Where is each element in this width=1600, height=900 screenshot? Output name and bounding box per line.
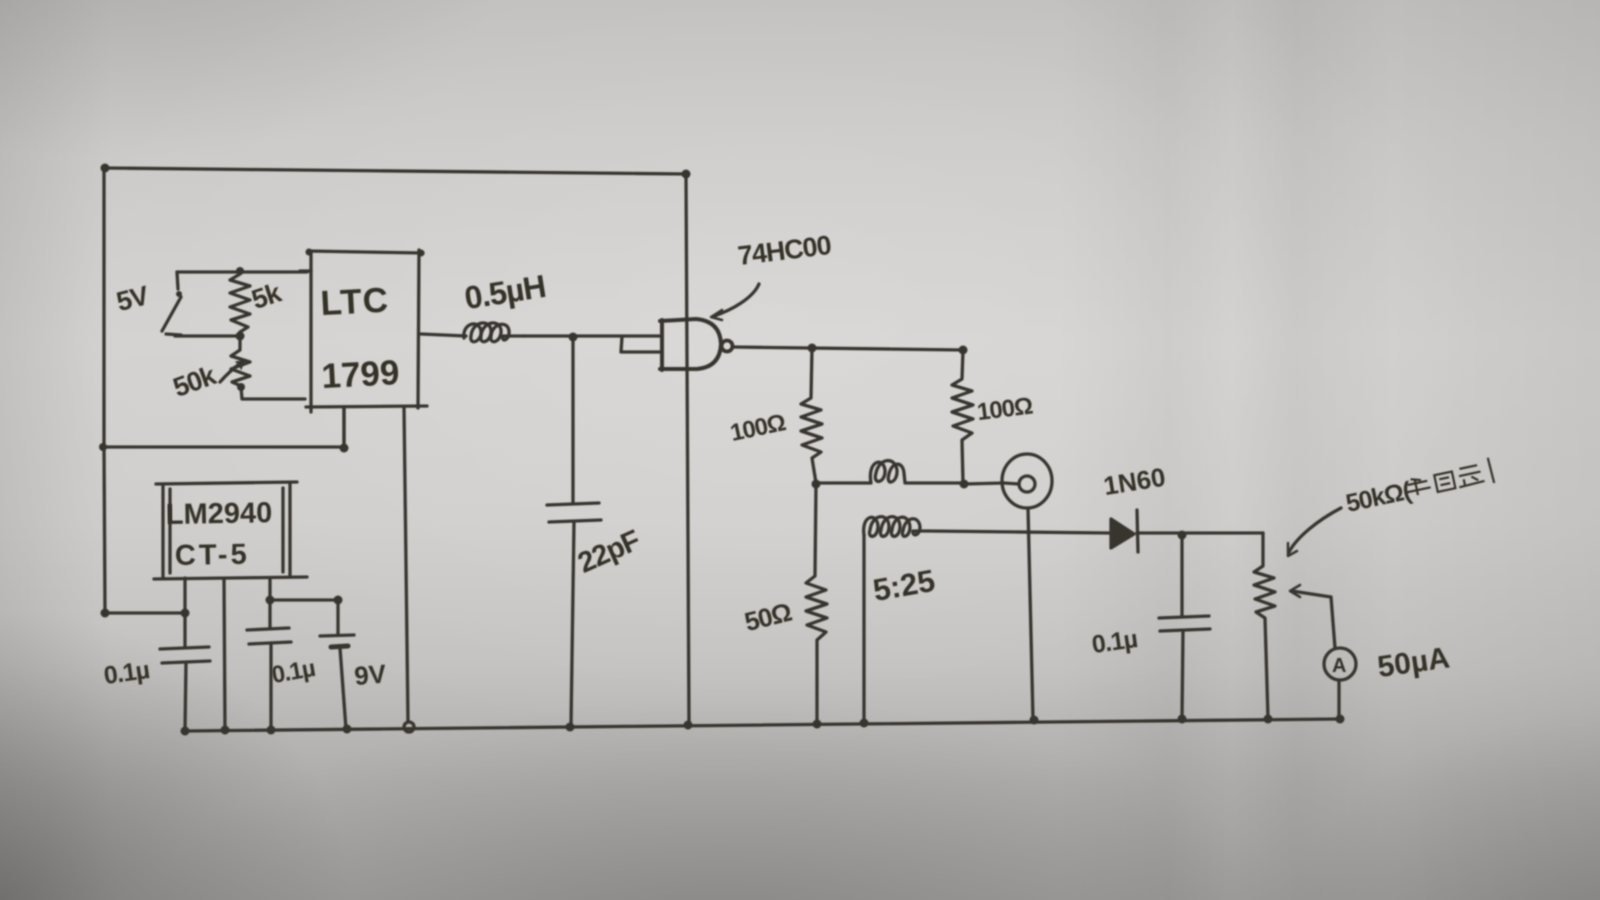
node open circle bottom — [404, 722, 414, 732]
transformer T1 primary — [816, 461, 963, 483]
svg-text:0.1µ: 0.1µ — [1090, 625, 1139, 659]
svg-text:0.5µH: 0.5µH — [462, 268, 548, 316]
wire reg right pin — [268, 578, 271, 600]
wiper arrow 50k — [220, 362, 242, 382]
wire rail to reg left pin — [105, 611, 185, 614]
node divider mid — [236, 332, 245, 341]
wire secondary to diode — [928, 531, 1109, 533]
node rail x688 — [684, 721, 693, 730]
svg-text:100Ω: 100Ω — [976, 392, 1035, 426]
node rail x347 — [343, 725, 352, 734]
node top-left corner — [101, 164, 110, 173]
potentiometer VR1 50k — [1254, 533, 1275, 718]
transformer T1 secondary — [864, 517, 928, 537]
op-amp U1 LTC1799 box — [308, 251, 423, 253]
meter M1 50uA — [1324, 648, 1356, 680]
node reg right pin — [266, 596, 275, 605]
wire NAND rail vertical — [686, 175, 689, 724]
wire pot to LTC — [241, 387, 305, 399]
capacitor C1 22pF — [571, 338, 574, 502]
node 22pF tap — [569, 333, 578, 342]
inductor L1 0.5uH — [464, 323, 524, 342]
svg-text:5V: 5V — [113, 280, 151, 317]
wire meter to rail — [1337, 680, 1340, 719]
node rail x1034 — [1030, 716, 1039, 725]
node output corner B — [959, 346, 968, 355]
node rail x1268 — [1264, 715, 1273, 724]
svg-text:50µA: 50µA — [1376, 641, 1452, 684]
node cap tap — [1178, 531, 1187, 540]
logic gate U2 74HC00 — [621, 337, 662, 352]
resistor R2 100ohm right — [952, 350, 973, 483]
label arrow to VR1 — [1289, 508, 1341, 552]
wiper arrow VR1 — [1292, 591, 1331, 597]
node battery top — [334, 596, 343, 605]
resistor 5k — [230, 274, 250, 332]
wire coil to gate input — [524, 334, 661, 337]
node rail x817 — [813, 720, 822, 729]
arrow to gate 74HC00 — [714, 284, 759, 316]
svg-text:50kΩ(: 50kΩ( — [1343, 477, 1414, 518]
node rail x225 — [221, 726, 230, 735]
svg-text:74HC00: 74HC00 — [736, 230, 832, 271]
wire LTC gnd pin — [342, 407, 345, 447]
potentiometer 50k — [231, 336, 250, 386]
wire ground return to LTC pin — [104, 408, 344, 447]
node left rail bottom — [101, 609, 110, 618]
wire diode to corner — [1137, 531, 1263, 534]
svg-text:50Ω: 50Ω — [741, 597, 794, 637]
node rail x1182 — [1178, 715, 1187, 724]
capacitor C3 0.1u output — [268, 600, 271, 628]
node top rail right end — [682, 170, 691, 179]
svg-text:A: A — [1332, 655, 1346, 677]
capacitor C2 0.1u input — [183, 613, 186, 647]
svg-text:5k: 5k — [248, 277, 286, 315]
svg-text:0.1µ: 0.1µ — [270, 655, 317, 689]
node LTC ground stub — [340, 444, 349, 453]
battery BT1 9V — [336, 600, 339, 634]
node left rail mid — [99, 443, 107, 451]
voltage regulator U3 LM2940CT-5 box — [156, 482, 297, 484]
wire LTC bottom pin long — [404, 407, 408, 722]
wire reg left pin — [183, 578, 186, 613]
svg-text:50k: 50k — [169, 360, 221, 403]
resistor R3 50ohm — [806, 484, 827, 723]
wire reg mid pin — [224, 578, 225, 730]
node rail x271 — [267, 726, 276, 735]
wire switch to divider mid — [175, 334, 240, 337]
svg-text:LM2940: LM2940 — [166, 497, 273, 531]
wire secondary left leg — [862, 535, 865, 722]
svg-text:1799: 1799 — [321, 353, 401, 396]
svg-text:100Ω: 100Ω — [728, 409, 788, 447]
wire gate output — [733, 347, 963, 350]
node 5k top — [236, 267, 244, 275]
connector J1 BNC — [1002, 454, 1052, 508]
wire LTC left pin tick — [300, 269, 311, 272]
wire left rail — [104, 168, 105, 613]
diode D1 1N60 — [1111, 519, 1134, 548]
wire primary to BNC — [964, 483, 1004, 484]
svg-text:CT-5: CT-5 — [175, 539, 250, 572]
wire bottom rail — [185, 719, 1340, 731]
wire switch top feed — [177, 270, 307, 273]
node rail x185 — [181, 727, 190, 736]
node primary right — [960, 480, 969, 489]
svg-text:9V: 9V — [353, 658, 388, 691]
node rail x1340 — [1336, 715, 1345, 724]
wire top rail — [104, 168, 686, 174]
node rail x864 — [860, 719, 869, 728]
node rail x570 — [566, 723, 575, 732]
svg-text:22pF: 22pF — [573, 524, 644, 579]
switch S1 5V — [177, 272, 178, 289]
node primary left — [812, 480, 821, 489]
wire BNC shield to ground — [1028, 508, 1033, 719]
wire LTC out to coil — [421, 334, 466, 336]
wire right pin to battery — [270, 598, 338, 601]
resistor R1 100ohm left — [801, 348, 822, 483]
capacitor C4 0.1u — [1180, 535, 1183, 616]
svg-text:1N60: 1N60 — [1101, 462, 1167, 501]
wire wiper to meter — [1331, 597, 1335, 648]
svg-text:5:25: 5:25 — [870, 563, 937, 608]
node pot bottom — [237, 383, 245, 391]
svg-text:0.1µ: 0.1µ — [102, 656, 151, 690]
label 50kohm semi-fixed — [1343, 458, 1495, 518]
svg-text:LTC: LTC — [319, 281, 389, 324]
node reg left pin — [181, 609, 190, 618]
node output tap A — [808, 344, 817, 353]
